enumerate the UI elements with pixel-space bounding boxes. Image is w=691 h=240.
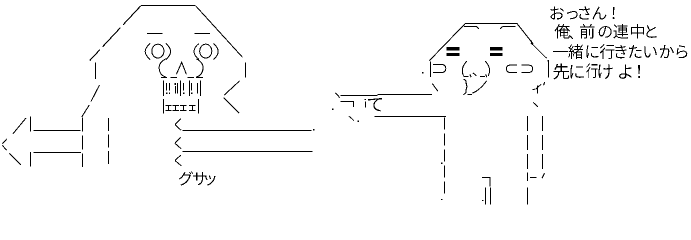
speech line 1 <box>551 6 564 19</box>
hand te glyph <box>368 98 382 111</box>
boy: right leg 1 <box>527 116 529 169</box>
old man: right eye (O) <box>194 44 199 60</box>
boy: hair arcs <box>464 26 479 28</box>
spear chevron 3 <box>175 155 181 166</box>
boy: jaw <box>432 84 438 92</box>
boy: collar i <box>533 88 535 90</box>
old man: right cheek bar <box>245 63 247 78</box>
boy: mouth <box>463 79 467 94</box>
old man: left body slashes <box>91 85 100 102</box>
boy: coat front dashed <box>444 118 446 198</box>
boy: right hair strand <box>531 43 547 58</box>
boy: left foot <box>482 177 490 186</box>
old man: nose curls <box>159 59 166 77</box>
boy: left cheek bar <box>430 62 432 77</box>
boy: left ear <box>433 64 446 72</box>
boy: hand <box>341 101 354 103</box>
spear chevron 2 <box>175 137 181 148</box>
boy: head left slope <box>429 24 465 61</box>
old man: left eye (O) <box>145 44 150 60</box>
old man: head right slope <box>196 6 243 57</box>
boy: right ear c c <box>506 65 517 72</box>
old man: coat vertical left <box>82 118 84 168</box>
old man: teeth row <box>163 99 165 114</box>
old man: head top <box>141 5 195 7</box>
boy: right shoulder <box>533 102 538 106</box>
old man: eyebrows <box>147 33 163 35</box>
boy: head right slope <box>517 24 533 44</box>
old man: head left slope (dashed) <box>90 6 141 61</box>
boy: nose base <box>464 76 469 78</box>
old man: mustache bars <box>163 80 165 96</box>
boy: nose parens <box>462 61 467 76</box>
speech line 2 <box>555 24 570 39</box>
spear line 2 <box>182 151 312 153</box>
old man: left cheek bar <box>95 63 97 80</box>
old man: coat vertical inner <box>108 118 110 167</box>
boy: head top <box>465 23 517 25</box>
boy: arm bottom line <box>375 116 447 118</box>
boy: eyes == <box>447 47 460 50</box>
boy: right leg 2 <box>542 116 544 169</box>
old man: right arm notch <box>224 81 239 95</box>
big left arrow: verticals <box>30 117 32 132</box>
speech tail bar <box>548 61 550 78</box>
speech line 4 <box>553 63 569 79</box>
spear chevron 1 <box>175 119 181 131</box>
sfx gusa (stab) <box>179 171 193 185</box>
spear line 1 <box>182 130 311 132</box>
big left arrow: head <box>13 118 26 134</box>
speech line 3 <box>553 51 568 52</box>
boy: arm top line <box>341 95 378 97</box>
old man: nose base dashes <box>161 77 167 79</box>
big left arrow: shafts <box>33 130 80 132</box>
